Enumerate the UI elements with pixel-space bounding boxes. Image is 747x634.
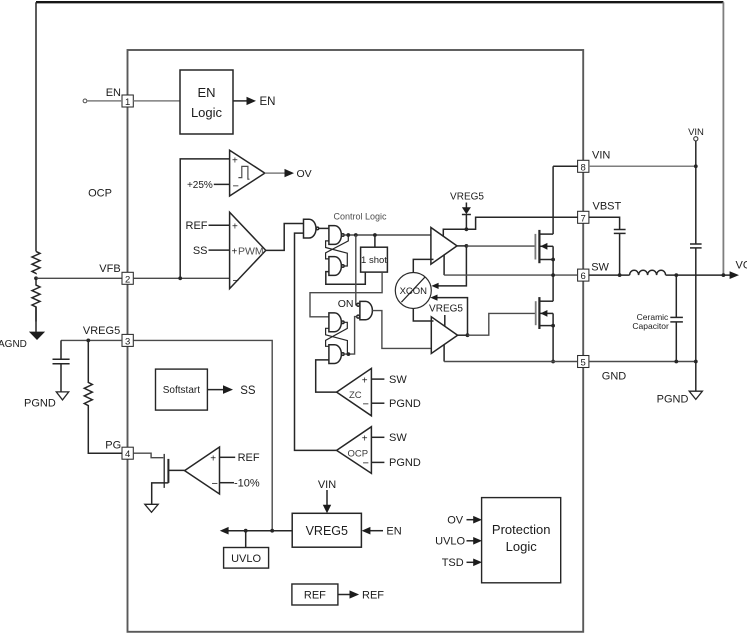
svg-text:+: + <box>362 434 368 445</box>
node output cap junction <box>674 273 678 277</box>
inductor L1 <box>630 270 666 275</box>
wire low driver output <box>458 334 468 336</box>
svg-text:VREG5: VREG5 <box>83 325 120 337</box>
wire drain to pin8 <box>553 165 578 167</box>
node rail dot c <box>373 233 377 237</box>
wire G1 to G2 <box>319 227 329 229</box>
svg-text:7: 7 <box>581 213 586 224</box>
svg-text:+25%: +25% <box>187 180 213 191</box>
capacitor output ceramic <box>670 275 683 361</box>
gate G4 nand bubbles <box>357 301 373 319</box>
arrow SS <box>223 385 233 394</box>
svg-text:OCP: OCP <box>348 448 369 459</box>
wire latch1 output rail <box>344 234 431 236</box>
svg-text:OV: OV <box>447 515 464 527</box>
arrow VO <box>730 271 739 279</box>
wire REF stub <box>209 224 230 226</box>
svg-text:Logic: Logic <box>191 105 223 120</box>
ground AGND symbol <box>29 332 45 340</box>
svg-text:SW: SW <box>389 432 407 444</box>
svg-text:UVLO: UVLO <box>231 553 261 565</box>
arrow OV into protection <box>467 516 483 524</box>
wire PWM output to G1 <box>266 224 304 251</box>
node gnd vin junction <box>694 360 698 364</box>
wire 1shot input <box>374 235 376 247</box>
svg-text:EN: EN <box>197 85 215 100</box>
arrow VIN into VREG5 <box>323 490 331 513</box>
wire divider to pin2 <box>36 277 123 279</box>
wire high gate <box>466 245 535 247</box>
wire pin3 to VREG5 cap <box>61 339 122 341</box>
wire EN input with terminal <box>83 99 122 103</box>
ground PGND right <box>689 391 702 399</box>
svg-text:OCP: OCP <box>88 188 112 200</box>
svg-text:Protection: Protection <box>492 522 551 537</box>
wire PGND stem right <box>695 362 697 392</box>
svg-text:Logic: Logic <box>506 539 538 554</box>
svg-text:VO: VO <box>736 260 747 272</box>
wire feedback top <box>36 1 723 3</box>
node VFB divider junction <box>34 276 38 280</box>
block REF <box>292 584 338 605</box>
svg-text:VREG5: VREG5 <box>450 192 484 203</box>
gate G2 nand latch1 <box>329 226 344 245</box>
svg-text:2: 2 <box>125 274 130 285</box>
wire ZC minus stub <box>371 402 384 404</box>
svg-text:SW: SW <box>389 374 407 386</box>
pin 8 <box>578 160 589 173</box>
pin 4 <box>122 447 133 460</box>
pin 5 <box>578 356 589 369</box>
pin 1 <box>122 95 133 108</box>
svg-text:EN: EN <box>386 526 401 538</box>
op-amp high side driver <box>431 228 457 265</box>
svg-text:−: − <box>233 275 239 287</box>
IC boundary rectangle <box>128 50 584 632</box>
svg-text:PGND: PGND <box>389 398 421 410</box>
pin 7 <box>578 211 589 224</box>
wire +25% stub <box>214 183 230 185</box>
wire VBST bootstrap rail <box>443 217 577 236</box>
wire G4 output to low driver <box>372 311 431 349</box>
op-amp PG comparator <box>185 447 220 494</box>
svg-text:EN: EN <box>106 87 121 99</box>
arrow into XCON bottom <box>430 295 437 301</box>
op-amp OV comparator <box>230 150 265 196</box>
wire high driver output <box>457 245 466 247</box>
svg-text:+: + <box>232 222 238 233</box>
wire VFB to PWM minus <box>133 277 229 279</box>
wire low driver gnd tap <box>443 345 445 362</box>
wire latch2 cross set <box>326 322 348 346</box>
svg-text:VIN: VIN <box>318 479 336 491</box>
block Softstart <box>156 369 208 410</box>
node low driver output <box>466 333 470 337</box>
wire VREG5 output rail <box>228 530 292 532</box>
svg-text:+: + <box>362 375 368 386</box>
svg-text:ON: ON <box>338 298 354 310</box>
svg-text:+: + <box>210 453 216 464</box>
svg-text:4: 4 <box>125 449 130 460</box>
svg-text:8: 8 <box>581 162 586 173</box>
ground PGND left <box>56 392 68 400</box>
resistor R-upper <box>32 251 40 273</box>
node VREG5 left junction <box>86 339 90 343</box>
node VIN junction <box>694 164 698 168</box>
wire low driver to XCON <box>436 298 468 336</box>
wire AGND stem <box>35 307 37 332</box>
wire ON net <box>355 235 358 305</box>
svg-text:UVLO: UVLO <box>435 536 465 548</box>
svg-text:1: 1 <box>125 97 130 108</box>
pin 2 <box>122 272 133 285</box>
svg-text:Control Logic: Control Logic <box>333 212 387 222</box>
node VREG5 net tap <box>270 529 274 533</box>
svg-text:Capacitor: Capacitor <box>632 321 669 331</box>
svg-text:+: + <box>232 156 238 167</box>
svg-text:REF: REF <box>238 452 260 464</box>
wire OCP minus stub <box>371 461 384 463</box>
node high driver output <box>465 244 469 248</box>
wire SS output <box>207 389 223 391</box>
svg-text:+: + <box>232 246 238 257</box>
svg-text:-10%: -10% <box>234 478 260 490</box>
wire VREG5 net vertical <box>133 340 272 530</box>
block UVLO <box>224 548 269 569</box>
wire SW power tap <box>443 255 445 275</box>
op-amp low side driver <box>431 317 457 354</box>
wire PG minus stub <box>220 482 235 484</box>
wire low gate path <box>468 313 536 335</box>
wire latch2 cross reset <box>326 328 348 354</box>
svg-text:PGND: PGND <box>657 394 689 406</box>
arrow EN output <box>247 97 257 105</box>
svg-text:6: 6 <box>581 271 586 282</box>
node UVLO tap <box>244 529 248 533</box>
node feedback tap <box>722 273 726 277</box>
wire G3 lower loop to 1shot <box>326 272 366 285</box>
wire latch1 cross reset <box>326 241 348 266</box>
svg-text:OV: OV <box>297 168 312 180</box>
op-amp OCP comparator <box>337 427 372 474</box>
gate G5 nand latch2 <box>329 313 344 332</box>
svg-text:−: − <box>363 399 369 411</box>
wire pin8 to VIN node <box>589 165 696 167</box>
pin 6 <box>578 269 589 282</box>
terminal VIN top <box>688 127 704 244</box>
svg-text:VBST: VBST <box>593 201 622 213</box>
block 1 shot <box>361 247 388 272</box>
wire SW rail internal <box>444 274 577 276</box>
arrow REF output <box>350 590 360 598</box>
svg-text:PGND: PGND <box>24 398 56 410</box>
arrow OV output <box>285 169 295 177</box>
svg-text:AGND: AGND <box>0 339 27 350</box>
node diode junction <box>465 227 469 231</box>
node rail dot b <box>354 233 358 237</box>
node gnd cap junction <box>674 360 678 364</box>
wire OV output <box>265 172 286 174</box>
svg-text:1 shot: 1 shot <box>361 255 387 266</box>
svg-text:TSD: TSD <box>442 557 464 569</box>
svg-text:VFB: VFB <box>99 263 120 275</box>
pin 3 <box>122 334 133 347</box>
svg-text:−: − <box>233 181 239 193</box>
svg-text:SW: SW <box>591 261 609 273</box>
wire VBST external <box>589 217 620 229</box>
wire pin1 to EN Logic <box>133 100 180 102</box>
transistor Q2 low side <box>536 275 555 363</box>
node rail dot a <box>346 233 350 237</box>
diode D1 <box>462 203 471 230</box>
block Protection Logic <box>482 498 561 583</box>
wire PG gate <box>133 453 163 458</box>
block EN Logic U-EN <box>180 70 233 134</box>
wire PG plus stub <box>220 456 236 458</box>
wire SS stub <box>209 249 230 251</box>
wire VREG5 stub low driver <box>444 315 446 326</box>
svg-text:VREG5: VREG5 <box>306 524 348 538</box>
wire VFB bus to OV plus <box>180 159 229 278</box>
svg-text:VIN: VIN <box>688 127 704 138</box>
svg-text:3: 3 <box>125 336 130 347</box>
wire SW to inductor <box>589 274 630 276</box>
wire high driver to XCON <box>437 246 466 286</box>
circle XCON <box>395 273 431 309</box>
capacitor VREG5 bypass <box>53 340 70 392</box>
node bootstrap junction <box>618 273 622 277</box>
wire feedback left <box>35 2 37 251</box>
wire OCP feedback to G1 <box>295 233 337 450</box>
svg-text:PWM: PWM <box>238 246 264 258</box>
svg-text:REF: REF <box>186 220 208 232</box>
arrow EN into VREG5 <box>362 527 383 535</box>
gate G3 nand latch1 <box>329 257 344 276</box>
wire OCP plus stub <box>371 436 384 438</box>
wire UVLO input <box>245 531 247 548</box>
node G6 output dot <box>347 352 351 356</box>
resistor R-lower <box>32 278 40 321</box>
svg-text:5: 5 <box>581 358 586 369</box>
capacitor bootstrap <box>614 230 626 276</box>
svg-text:REF: REF <box>362 590 384 602</box>
gate G1 nand <box>304 219 319 238</box>
svg-text:VREG5: VREG5 <box>429 304 463 315</box>
wire GND rail internal <box>444 361 577 363</box>
wire REF output <box>338 594 350 596</box>
resistor PG pullup <box>84 340 122 453</box>
wire G6 output to G4 <box>344 317 356 355</box>
wire GND rail external <box>589 361 696 363</box>
wire inductor to VO <box>666 274 731 276</box>
op-amp PWM comparator <box>230 212 266 288</box>
wire feedback right <box>722 2 724 274</box>
wire latch1 cross set <box>326 235 349 259</box>
svg-text:Softstart: Softstart <box>163 385 200 396</box>
svg-text:PGND: PGND <box>389 457 421 469</box>
capacitor VIN input <box>690 244 702 362</box>
node VFB bus junction <box>178 276 182 280</box>
svg-text:EN: EN <box>260 96 276 108</box>
arrow UVLO into protection <box>467 537 483 545</box>
op-amp ZC comparator <box>337 368 372 415</box>
wire ZC plus stub <box>371 378 384 380</box>
svg-text:XCON: XCON <box>400 286 428 297</box>
svg-text:SS: SS <box>240 385 256 397</box>
wire EN logic output <box>233 100 247 102</box>
transistor Q1 high side <box>535 166 555 277</box>
wire 1shot output to latch2 <box>310 272 382 317</box>
arrow TSD into protection <box>467 559 483 567</box>
wire XCON to low driver <box>413 309 433 322</box>
block VREG5 <box>292 513 361 547</box>
arrow VREG5 rail left <box>220 527 229 535</box>
svg-text:PG: PG <box>105 440 121 452</box>
svg-text:ZC: ZC <box>349 390 362 401</box>
svg-text:−: − <box>212 478 218 490</box>
svg-text:GND: GND <box>602 371 627 383</box>
svg-text:VIN: VIN <box>592 150 610 162</box>
svg-text:SS: SS <box>193 245 208 257</box>
ground PG source <box>145 504 158 512</box>
svg-text:REF: REF <box>304 590 326 602</box>
arrow into XCON top <box>431 283 438 289</box>
transistor Q3 PG open drain <box>152 454 185 504</box>
gate G6 nand latch2 <box>329 345 344 364</box>
wire XCON to high driver <box>413 259 433 272</box>
wire ZC output to latch2 <box>316 360 337 392</box>
